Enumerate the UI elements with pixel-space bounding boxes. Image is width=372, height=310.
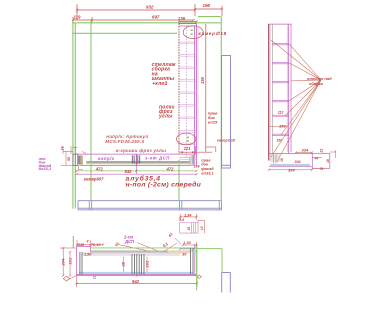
svg-text:камер∅18: камер∅18: [217, 139, 235, 143]
wire vertical x91: [90, 20, 92, 200]
right cap: [194, 244, 196, 276]
svg-text:18: 18: [280, 158, 284, 162]
shelves: [179, 42, 196, 160]
middle divider cluster: [132, 254, 144, 274]
leader fan: [271, 40, 321, 162]
rail hatch cluster: [132, 155, 139, 163]
column left edge: [178, 23, 180, 154]
wire vertical x221: [220, 17, 222, 201]
svg-text:вл15: вл15: [208, 119, 218, 124]
svg-text:932: 932: [146, 5, 154, 10]
svg-text:74: 74: [320, 167, 324, 171]
blue foot below: [222, 273, 231, 293]
svg-text:камер807: камер807: [84, 176, 104, 181]
dim tick slashes: [62, 8, 313, 285]
wire top: [72, 22, 221, 24]
bottom edges: [77, 273, 197, 275]
node pins bottom: [187, 137, 189, 139]
right inner wall: [190, 248, 192, 274]
section marker diamond: [197, 275, 201, 278]
svg-text:22: 22: [320, 149, 324, 154]
leader note: [307, 76, 332, 86]
note prav bok fasad: [201, 158, 214, 176]
svg-text:н-пол (-2см) спереди: н-пол (-2см) спереди: [126, 181, 202, 189]
svg-text:30: 30: [182, 251, 187, 256]
svg-text:112: 112: [278, 110, 284, 114]
callout ellipse top: [183, 26, 203, 39]
svg-text:8,6: 8,6: [179, 218, 184, 222]
svg-text:150: 150: [277, 138, 283, 142]
bottom top line: [269, 153, 312, 155]
left inner wall: [79, 252, 81, 274]
light blue band: [79, 272, 193, 274]
svg-text:472: 472: [166, 166, 175, 171]
dim 150 vertical: [205, 24, 207, 152]
svg-text:+клей: +клей: [152, 80, 167, 87]
side right verticals: [288, 24, 290, 153]
gray band: [82, 252, 180, 255]
svg-text:121: 121: [184, 146, 192, 151]
bottom plate band: [270, 164, 310, 166]
svg-text:697: 697: [152, 15, 160, 20]
dim 472 dual: [77, 170, 197, 172]
rail right cap: [189, 157, 190, 165]
side shelves: [272, 43, 288, 135]
note polki: [158, 105, 175, 120]
svg-text:з-от ДСП: з-от ДСП: [145, 156, 170, 161]
rail left cap: [73, 154, 78, 165]
dim 119 / 697: [73, 17, 194, 23]
wire left vertical pair: [72, 23, 74, 209]
svg-text:сборки: сборки: [309, 81, 324, 86]
body outline: [91, 247, 197, 249]
svg-text:8: 8: [87, 240, 89, 244]
node pins top: [190, 30, 192, 32]
svg-text:334: 334: [302, 148, 309, 153]
svg-text:28: 28: [121, 261, 126, 267]
svg-text:136: 136: [178, 16, 186, 21]
side top: [268, 23, 291, 25]
callout ellipse bottom: [177, 133, 196, 145]
note napr artikul: [105, 134, 166, 153]
note stellag: [152, 62, 176, 87]
dim 198: [195, 4, 222, 16]
rail gray band: [86, 161, 189, 163]
svg-text:1,33: 1,33: [183, 240, 192, 245]
svg-text:вл33,1: вл33,1: [201, 171, 213, 176]
svg-text:311: 311: [295, 159, 302, 164]
svg-text:18: 18: [326, 159, 330, 163]
svg-text:камер∅18: камер∅18: [199, 31, 227, 36]
svg-text:18: 18: [187, 227, 191, 231]
svg-text:11: 11: [93, 275, 97, 279]
svg-text:в-крыши фрез углы: в-крыши фрез углы: [116, 147, 167, 153]
rail left end layers: [78, 156, 81, 165]
vertical divider middle: [135, 165, 137, 174]
dim 932: [77, 4, 195, 20]
svg-text:напр/х: напр/х: [98, 156, 115, 161]
dim 932 lower: [77, 173, 197, 175]
side left verticals: [267, 24, 269, 160]
svg-text:MCS.FD36.250.S: MCS.FD36.250.S: [105, 139, 145, 144]
svg-text:198: 198: [203, 3, 211, 8]
wire under-top: [72, 32, 177, 34]
svg-text:932: 932: [125, 169, 133, 174]
svg-text:1,50: 1,50: [84, 252, 92, 256]
wire vertical x179: [178, 160, 180, 200]
column right edge: [193, 26, 195, 165]
svg-text:10: 10: [200, 226, 204, 230]
note prav bok vl15: [208, 110, 218, 124]
right detail box: [312, 153, 330, 168]
svg-text:44: 44: [314, 156, 319, 160]
svg-text:18: 18: [60, 147, 64, 151]
green highlight box: [197, 245, 222, 290]
column centre dashed: [186, 27, 188, 159]
svg-text:ДСП: ДСП: [124, 239, 135, 244]
wire top-right short: [198, 16, 221, 18]
svg-text:50: 50: [67, 157, 71, 161]
column top: [179, 22, 196, 24]
svg-text:150: 150: [200, 76, 205, 84]
rail top/bottom lines: [76, 153, 197, 155]
note lev bok fasad: [38, 156, 52, 171]
right side wall rectangle: [222, 56, 231, 169]
svg-text:472: 472: [95, 166, 104, 171]
svg-text:вл33,1: вл33,1: [39, 166, 52, 171]
svg-text:углы: углы: [158, 114, 173, 120]
dim 942: [77, 282, 197, 284]
svg-text:119: 119: [74, 14, 82, 19]
svg-text:942: 942: [132, 279, 140, 284]
hatch detail: [271, 155, 281, 161]
dim 136: [179, 20, 197, 22]
